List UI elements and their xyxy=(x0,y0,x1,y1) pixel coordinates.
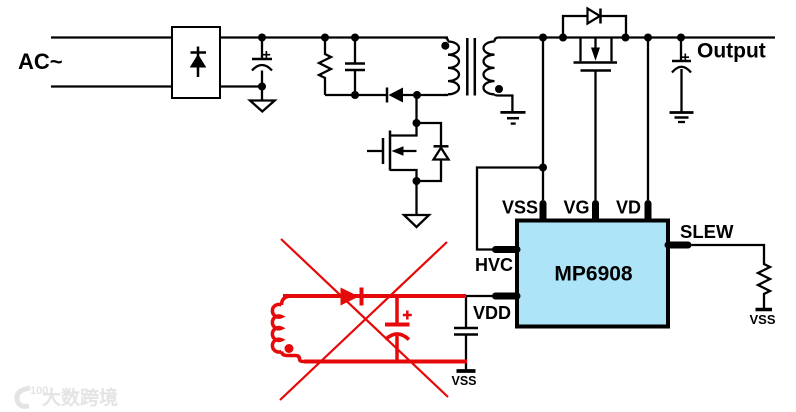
svg-text:VG: VG xyxy=(563,198,589,218)
svg-text:VDD: VDD xyxy=(473,303,511,323)
svg-text:VSS: VSS xyxy=(749,312,775,327)
svg-text:AC~: AC~ xyxy=(18,49,63,74)
svg-text:HVC: HVC xyxy=(475,255,513,275)
svg-text:VD: VD xyxy=(616,198,641,218)
svg-text:VSS: VSS xyxy=(451,374,476,388)
svg-text:VSS: VSS xyxy=(502,198,538,218)
svg-text:Output: Output xyxy=(697,40,766,63)
svg-text:MP6908: MP6908 xyxy=(554,263,633,286)
svg-text:大数跨境: 大数跨境 xyxy=(42,386,118,409)
svg-text:SLEW: SLEW xyxy=(680,221,734,242)
